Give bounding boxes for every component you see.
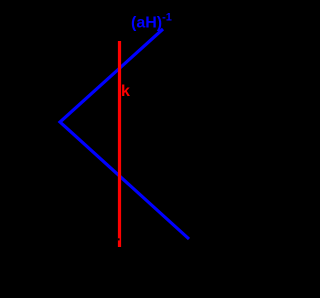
line k : red vertical comoving-scale line [118, 41, 121, 247]
curve (aH)^-1 : blue V-shaped polyline [60, 29, 189, 239]
small gap artifact in red line [118, 238, 120, 240]
svg-text:k: k [121, 83, 130, 100]
